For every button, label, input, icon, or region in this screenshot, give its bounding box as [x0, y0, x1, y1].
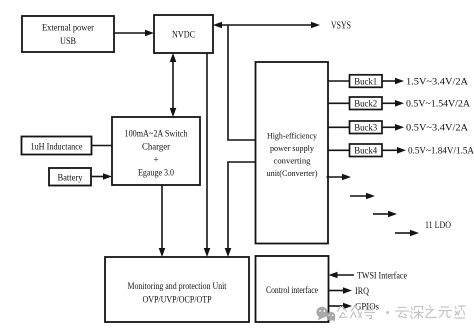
svg-text:Buck3: Buck3 [354, 123, 377, 133]
svg-text:TWSI Interface: TWSI Interface [357, 270, 407, 281]
svg-text:0.5V~1.84V/1.5A: 0.5V~1.84V/1.5A [408, 147, 474, 157]
wire W19 LDO arrow 2 [350, 193, 375, 200]
wire W5 NVDC to charger double arrow [170, 53, 177, 117]
label Buck3 output 0.5V~3.4V/2A [406, 124, 468, 134]
label GPIOs [355, 302, 379, 312]
watermark wechat icon [316, 307, 335, 322]
svg-text:11 LDO: 11 LDO [425, 221, 451, 231]
svg-text:Battery: Battery [58, 172, 83, 182]
wire W9 charger down to monitoring arrow [159, 185, 166, 257]
svg-text:1uH Inductance: 1uH Inductance [31, 141, 83, 151]
wire W4 converter left out down to monitoring arrow [225, 162, 256, 257]
label TWSI Interface [357, 270, 407, 281]
wire W7 inductance to charger [92, 145, 113, 147]
svg-text:Monitoring and protection Unit: Monitoring and protection Unit [128, 282, 227, 292]
wire W13 Buck2 output arrow [382, 100, 404, 107]
box U6 control interface [256, 256, 329, 322]
char zhi [426, 306, 437, 318]
wire W1 USB to NVDC arrow [114, 30, 154, 37]
box U4 high-efficiency power supply converting unit [256, 62, 329, 244]
svg-text:NVDC: NVDC [172, 31, 195, 41]
wire W12 converter to Buck2 [328, 102, 350, 104]
label Buck2 output 0.5V~1.54V/2A [406, 100, 470, 110]
label IRQ [355, 287, 369, 297]
box U5 monitoring and protection unit [105, 257, 249, 322]
svg-text:+: + [153, 156, 158, 166]
node VSYS label [331, 21, 351, 32]
char hao [365, 306, 375, 319]
char ji [455, 306, 466, 318]
svg-text:unit(Converter): unit(Converter) [267, 168, 318, 178]
watermark text gongzhonghao yunshen zhi wuji [338, 306, 466, 319]
svg-text:1.5V~3.4V/2A: 1.5V~3.4V/2A [406, 77, 468, 87]
char zhong [351, 306, 362, 319]
box B1 Battery [49, 168, 91, 186]
box U3 switch charger Egauge [112, 117, 200, 185]
svg-text:Buck1: Buck1 [354, 76, 377, 86]
wire W10 converter to Buck1 [328, 80, 350, 82]
wire W6 NVDC down to monitoring arrow [204, 53, 211, 257]
wire W11 Buck1 output arrow [382, 78, 404, 85]
wire W15 Buck3 output arrow [382, 124, 404, 131]
svg-text:0.5V~3.4V/2A: 0.5V~3.4V/2A [406, 124, 468, 134]
wire W21 LDO arrow 4 [395, 230, 419, 237]
wire W16 converter to Buck4 [328, 149, 350, 151]
wire W18 LDO arrow 1 [327, 174, 352, 181]
wire W22 TWSI arrow into control interface [329, 272, 355, 279]
label Buck4 output 0.5V~1.84V/1.5A [408, 147, 474, 157]
wire W17 Buck4 output arrow [382, 147, 406, 154]
box U1 External power USB [22, 16, 114, 52]
wire W14 converter to Buck3 [328, 126, 350, 128]
svg-text:Buck2: Buck2 [354, 99, 377, 109]
char middle dot [386, 311, 389, 314]
char gong [338, 307, 348, 318]
svg-text:External power: External power [42, 24, 95, 34]
label Buck1 output 1.5V~3.4V/2A [406, 77, 468, 87]
wire W2 NVDC to VSYS double arrow [213, 22, 320, 29]
svg-text:Control interface: Control interface [266, 285, 318, 296]
svg-text:0.5V~1.54V/2A: 0.5V~1.54V/2A [406, 100, 470, 110]
box L1 1uH Inductance [22, 137, 92, 155]
svg-text:High-efficiency: High-efficiency [267, 130, 318, 140]
char yun [396, 308, 409, 318]
box Buck4 [350, 144, 383, 157]
box Buck3 [350, 121, 383, 134]
wire W3 VSYS branch down into converter [228, 25, 256, 140]
svg-text:Charger: Charger [142, 143, 171, 153]
char wu [439, 307, 452, 318]
label 11 LDO [425, 221, 451, 231]
svg-text:Buck4: Buck4 [354, 146, 377, 156]
box Buck2 [350, 97, 383, 110]
svg-text:VSYS: VSYS [331, 21, 351, 32]
svg-text:Egauge 3.0: Egauge 3.0 [138, 169, 174, 179]
box Buck1 [350, 75, 383, 88]
svg-text:IRQ: IRQ [355, 287, 369, 297]
svg-text:OVP/UVP/OCP/OTP: OVP/UVP/OCP/OTP [143, 296, 212, 306]
wire W20 LDO arrow 3 [373, 211, 397, 218]
svg-text:100mA~2A Switch: 100mA~2A Switch [125, 130, 188, 140]
char shen [411, 307, 424, 319]
svg-text:power supply: power supply [270, 143, 315, 153]
box U2 NVDC [154, 15, 213, 53]
svg-text:converting: converting [274, 155, 312, 165]
wire W24 GPIOs arrow out [329, 303, 353, 310]
svg-text:USB: USB [60, 37, 76, 47]
wire W23 IRQ arrow out [329, 287, 353, 294]
wire W8 battery to charger arrow [91, 173, 112, 180]
